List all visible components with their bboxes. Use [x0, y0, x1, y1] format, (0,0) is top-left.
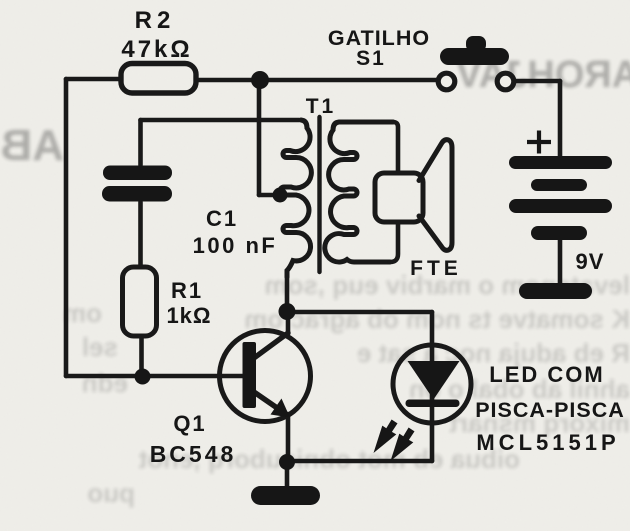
- svg-text:T1: T1: [306, 95, 337, 118]
- transistor Q1 base bar: [243, 342, 257, 408]
- svg-text:100 nF: 100 nF: [193, 233, 278, 258]
- wire: C1 top lead: [138, 120, 143, 165]
- node: R1/base junction: [135, 369, 151, 385]
- switch S1 button knob: [466, 36, 486, 52]
- svg-text:S1: S1: [356, 47, 386, 70]
- battery B1 plate 1 long: [509, 156, 612, 169]
- svg-text:edn: edn: [82, 368, 128, 398]
- svg-text:1kΩ: 1kΩ: [166, 303, 211, 328]
- node: transformer center tap: [273, 188, 288, 203]
- wire: base wire: [66, 374, 243, 379]
- transformer T1 primary winding: [280, 120, 311, 277]
- switch S1 left terminal: [438, 73, 455, 90]
- battery B1 plate 2 short: [531, 179, 587, 191]
- resistor R2 box: [121, 64, 196, 94]
- transistor Q1 emitter diagonal: [254, 392, 283, 412]
- node: collector/LED junction: [279, 303, 296, 320]
- wire: R1 bottom lead: [139, 336, 144, 376]
- wire: primary bottom lead: [285, 276, 290, 311]
- svg-text:FTE: FTE: [410, 257, 462, 280]
- wire: emitter node to LED bottom: [287, 459, 432, 464]
- resistor R1 box: [123, 267, 157, 336]
- svg-text:LED COM: LED COM: [489, 362, 604, 387]
- transformer T1 secondary winding: [325, 122, 393, 262]
- transformer T1 core: [317, 117, 321, 272]
- wire: node to transformer tap vertical: [257, 80, 262, 195]
- wire: R2 left lead: [66, 77, 121, 82]
- wire: ground stem: [285, 462, 290, 487]
- LED light arrow 1: [374, 420, 398, 454]
- svg-text:BC548: BC548: [150, 441, 237, 467]
- wire: C1 bottom to R1 top: [138, 202, 143, 267]
- LED cathode bar: [406, 400, 460, 408]
- ground bar (emitter): [251, 486, 320, 505]
- battery B1 plate 4 short: [531, 226, 587, 240]
- speaker FTE cone: [419, 140, 452, 251]
- battery plus sign: [527, 131, 551, 154]
- transistor Q1 emitter arrowhead: [271, 399, 291, 418]
- speaker FTE driver box: [375, 173, 423, 222]
- wire: collector vertical: [286, 311, 291, 334]
- wire: emitter vertical: [286, 414, 291, 462]
- wire: switch to right rail: [515, 79, 560, 84]
- LED triangle: [408, 361, 460, 400]
- LED light arrow 2: [391, 428, 415, 462]
- LED body circle: [393, 345, 471, 423]
- wire: left rail vertical: [64, 79, 69, 376]
- svg-text:om: om: [63, 298, 102, 328]
- svg-text:9V: 9V: [576, 249, 605, 274]
- wire: LED vertical lead: [430, 312, 435, 461]
- wire: C1 to primary top: [141, 118, 300, 123]
- transistor Q1 body circle: [220, 331, 311, 422]
- node: R2/switch/tap junction: [251, 71, 269, 89]
- wire: collector node to LED top: [287, 310, 432, 315]
- capacitor C1 top plate: [103, 166, 172, 181]
- svg-text:Q1: Q1: [173, 411, 206, 436]
- wire: top rail to switch: [260, 78, 437, 83]
- node: emitter/LED junction: [279, 454, 295, 470]
- wire: R2 right lead to node: [196, 78, 260, 83]
- svg-text:AB: AB: [0, 121, 64, 170]
- capacitor C1 bottom plate: [102, 186, 172, 202]
- wire: tap horizontal: [259, 193, 282, 198]
- wire: secondary top corner down to speaker: [393, 122, 398, 173]
- svg-text:MCL5151P: MCL5151P: [476, 430, 619, 455]
- battery B1 plate 3 long: [509, 199, 612, 213]
- svg-text:C1: C1: [206, 206, 238, 231]
- svg-text:K somatve ts nom ob agrac om: K somatve ts nom ob agrac om: [244, 304, 630, 334]
- switch S1 right terminal: [497, 73, 514, 90]
- ghost bleed-through text (mirrored page verso): [0, 54, 630, 170]
- wire: right rail down to battery: [558, 81, 563, 157]
- svg-text:PISCA-PISCA: PISCA-PISCA: [475, 398, 625, 422]
- battery bottom plate bar: [519, 283, 592, 299]
- svg-text:R2: R2: [135, 7, 176, 34]
- transistor Q1 collector diagonal: [254, 333, 288, 358]
- svg-text:R1: R1: [171, 278, 203, 303]
- switch S1 button cap: [440, 48, 509, 65]
- svg-text:sel: sel: [82, 332, 118, 362]
- svg-text:47kΩ: 47kΩ: [121, 36, 192, 63]
- wire: speaker bottom corner: [390, 222, 398, 262]
- wire: battery stem to bottom plate: [558, 240, 563, 285]
- svg-text:puo: puo: [87, 478, 135, 508]
